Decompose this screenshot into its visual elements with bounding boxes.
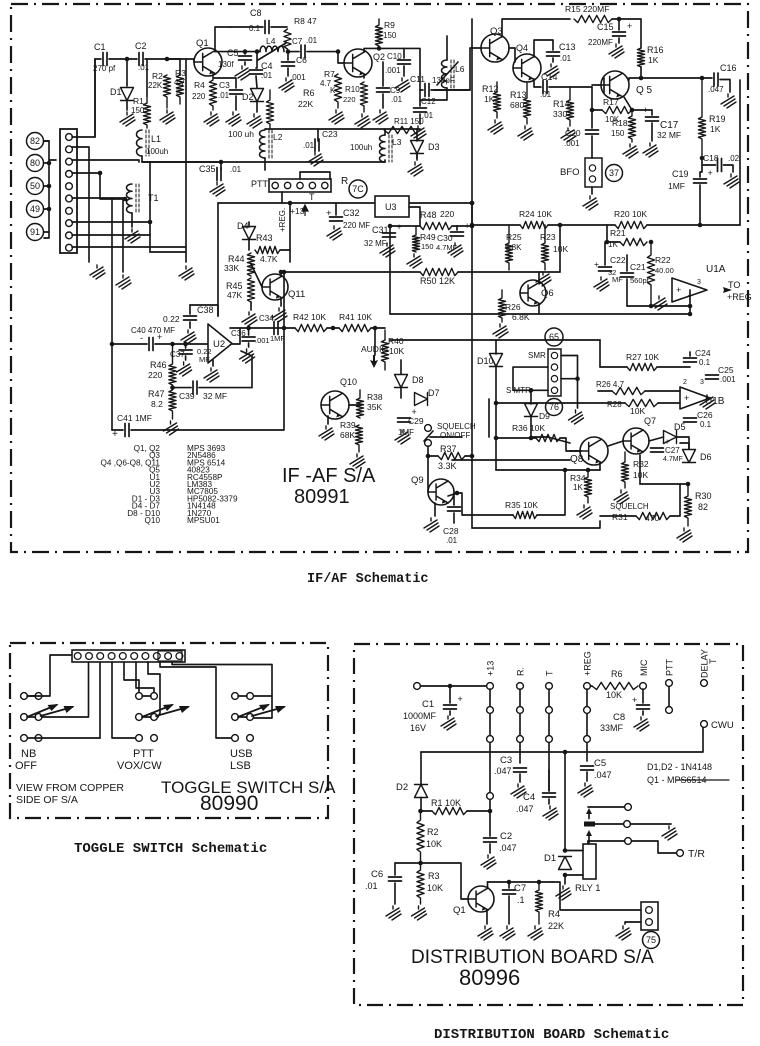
svg-text:.01: .01 — [391, 95, 403, 104]
wire toggle pin1 — [28, 655, 71, 696]
wire R50 right — [458, 271, 560, 273]
label R23 value — [553, 244, 568, 254]
ground R2 — [160, 110, 175, 124]
wire C23 stub — [317, 129, 319, 141]
terminal PTT dist b — [666, 707, 673, 714]
svg-text:C20: C20 — [565, 128, 581, 138]
wire C2 dn — [489, 844, 491, 853]
wire C39 left — [173, 387, 192, 389]
svg-text:.1: .1 — [517, 895, 525, 905]
svg-text:C26: C26 — [697, 410, 713, 420]
label R14 value — [553, 109, 567, 119]
label R36 10K — [512, 423, 545, 433]
ground R39 — [350, 454, 365, 468]
switch contact g2 r1 a — [232, 714, 239, 721]
diode D5 — [664, 431, 677, 444]
label C15 — [597, 22, 614, 32]
wire bottom throw right — [631, 841, 676, 853]
label R46 — [150, 360, 167, 370]
svg-text:R38: R38 — [367, 392, 383, 402]
junction L1 bus — [219, 160, 224, 165]
ground C36 — [240, 349, 255, 363]
svg-text:Q10: Q10 — [145, 516, 161, 525]
label R12 value — [484, 94, 495, 104]
label U1A pin7 — [688, 295, 692, 302]
wire C4 to D2 — [256, 76, 257, 88]
capacitor C3 — [230, 90, 243, 94]
label T/R — [688, 848, 705, 860]
label +REG rot — [278, 208, 287, 232]
label R21 — [610, 228, 626, 238]
wire Q2 collector — [364, 48, 404, 52]
wire +13 low — [489, 799, 491, 811]
svg-text:C12: C12 — [421, 97, 436, 106]
label R25 value — [505, 243, 522, 252]
ground C6 dist — [386, 906, 401, 920]
label R3 value — [427, 883, 443, 893]
junction pin4 — [98, 171, 103, 176]
wire D1 rly bottom — [565, 874, 583, 876]
svg-text:C24: C24 — [695, 348, 711, 358]
note Q1 — [647, 775, 707, 785]
label R44 value — [224, 263, 239, 273]
ground C22 — [594, 277, 609, 291]
label R32 — [633, 459, 649, 469]
svg-text:R8 47: R8 47 — [294, 16, 317, 26]
junction C36 — [246, 326, 251, 331]
svg-text:+REG: +REG — [727, 292, 752, 302]
wire bottom throw bend — [587, 841, 589, 844]
wire y470 bus — [496, 469, 600, 471]
svg-text:R13: R13 — [510, 90, 527, 100]
svg-text:.02: .02 — [728, 154, 740, 163]
label D3 — [428, 142, 440, 152]
svg-text:+: + — [112, 429, 118, 440]
wire R15 right — [612, 19, 641, 48]
ground C38 — [181, 330, 196, 344]
svg-text:TOGGLE SWITCH Schematic: TOGGLE SWITCH Schematic — [74, 841, 267, 857]
wire Q3 top — [502, 19, 570, 37]
wire C15 gnd — [618, 38, 620, 43]
label C22 plus — [594, 259, 599, 269]
label DELAY — [700, 649, 710, 678]
svg-text:L6: L6 — [455, 64, 465, 74]
wire contact link g2 r0 — [238, 695, 247, 697]
wire R24 left — [472, 224, 520, 226]
ground contact common — [662, 826, 677, 840]
parts list value LM383 — [187, 480, 212, 489]
svg-text:R48: R48 — [420, 210, 437, 220]
resistor R10b — [360, 82, 367, 112]
capacitor C8 — [265, 21, 269, 34]
resistor R25 — [505, 225, 512, 270]
capacitor C30 — [451, 221, 470, 236]
label D1 — [110, 87, 122, 97]
label C8 dist — [613, 712, 625, 723]
wire C1 up — [449, 686, 451, 703]
resistor R30 — [684, 484, 691, 526]
svg-text:K: K — [176, 87, 182, 96]
svg-text:.001: .001 — [290, 73, 306, 82]
wire pin1 up — [72, 59, 95, 137]
toggle switch border box — [10, 643, 328, 818]
svg-text:.047: .047 — [594, 770, 612, 780]
caption DISTRIBUTION BOARD Schematic — [434, 1027, 669, 1043]
label SMR — [528, 351, 546, 360]
label C14 value — [540, 90, 552, 99]
wire C17 gnd — [651, 123, 653, 141]
svg-text:C14: C14 — [541, 72, 558, 82]
ground C13 — [544, 64, 559, 78]
ground C3 — [226, 112, 241, 126]
junction D9 bus — [529, 436, 534, 441]
label U3 — [385, 202, 397, 212]
capacitor C20 — [586, 130, 599, 134]
label C32 — [343, 208, 360, 218]
svg-text:+: + — [684, 393, 689, 403]
wire R37 right — [465, 455, 472, 457]
svg-text:.01: .01 — [446, 536, 458, 545]
capacitor C37 — [179, 350, 192, 354]
svg-text:R47: R47 — [148, 389, 165, 399]
label D1 dist — [544, 853, 556, 864]
wire Q1 base wire — [421, 863, 469, 899]
label bus +13 — [486, 661, 496, 676]
label R2 value — [148, 81, 163, 90]
wire C10 gnd — [403, 66, 405, 76]
wire D3 gnd2 — [416, 153, 418, 158]
label R22 value — [655, 266, 674, 275]
svg-text:C19: C19 — [672, 169, 689, 179]
label TO — [728, 280, 740, 290]
svg-text:4.7: 4.7 — [174, 78, 186, 87]
svg-text:D4: D4 — [237, 221, 249, 231]
junction mid bus — [558, 223, 563, 228]
label R1 value — [131, 106, 145, 115]
transformer T1 primary — [127, 184, 140, 213]
op-amp U2 — [208, 324, 232, 363]
wire Q8 base bus — [548, 437, 570, 443]
label C17 — [660, 120, 679, 131]
svg-text:37: 37 — [609, 168, 619, 178]
label R10b value — [343, 95, 356, 104]
label C16 — [720, 63, 737, 73]
label C6 — [296, 55, 307, 65]
wire U3 out — [409, 207, 420, 226]
svg-text:R28: R28 — [607, 400, 622, 409]
label C30 — [437, 233, 453, 243]
label Q1 — [196, 38, 209, 49]
wire C11 left — [404, 48, 423, 90]
label C22 — [610, 255, 626, 265]
wire collector to R35 — [457, 493, 513, 515]
pad R. b — [517, 736, 524, 743]
resistor R39 — [355, 425, 362, 452]
label C29 — [408, 416, 424, 426]
svg-text:0.22: 0.22 — [163, 314, 180, 324]
switch squelch a — [425, 425, 432, 432]
ground C31 — [380, 243, 395, 257]
svg-text:Q3: Q3 — [490, 26, 503, 37]
label 0.22 — [163, 314, 180, 324]
switch arm arrows g0 — [27, 704, 75, 717]
wire input bus — [95, 58, 101, 60]
label R49 value — [421, 242, 434, 251]
wire R24-R20 — [548, 224, 615, 226]
svg-text:+: + — [627, 21, 632, 31]
wire Q6 collector — [538, 272, 540, 282]
svg-text:R9: R9 — [384, 20, 395, 30]
wire T ext — [548, 770, 550, 791]
svg-text:+REG.: +REG. — [278, 208, 287, 232]
label C25 — [718, 365, 734, 375]
label R16 value — [648, 55, 659, 65]
wire Q9 collector — [448, 493, 457, 496]
svg-text:D6: D6 — [700, 452, 712, 462]
junction R2 bot — [418, 861, 423, 866]
label Q8 — [570, 454, 584, 465]
IF/AF schematic border box — [11, 4, 748, 552]
label R40 value — [389, 346, 404, 356]
wire C28 up — [453, 493, 455, 505]
capacitor C4 dist — [543, 793, 556, 797]
ground conn dist — [616, 926, 631, 940]
ground R26 — [493, 324, 508, 338]
svg-text:50: 50 — [30, 181, 40, 191]
label R30 — [695, 491, 712, 501]
resistor R44 — [247, 253, 254, 276]
label R31 value — [645, 513, 659, 523]
capacitor C38 — [184, 316, 197, 320]
svg-text:D9: D9 — [539, 411, 550, 421]
junction C37 node — [183, 342, 188, 347]
wire C17 stub — [632, 110, 652, 115]
ground T1 — [125, 229, 140, 243]
label R18 value — [611, 129, 625, 138]
label C27 — [665, 446, 680, 455]
junction R21 right — [649, 240, 654, 245]
terminal label 82 — [27, 133, 44, 150]
label C1 value b — [410, 723, 426, 733]
label toggle OFF — [15, 760, 37, 772]
wire C30 up — [456, 226, 458, 230]
svg-text:R40: R40 — [388, 336, 404, 346]
svg-text:C7: C7 — [292, 37, 303, 46]
junction R17 right — [630, 108, 635, 113]
svg-text:1K: 1K — [710, 124, 721, 134]
wire C21 down — [626, 279, 628, 306]
junction R35 bus — [563, 468, 568, 473]
wire L3 bottom — [384, 160, 386, 162]
svg-text:L4: L4 — [266, 36, 276, 46]
title 80990 — [200, 792, 258, 815]
label C31 — [372, 225, 389, 235]
junction bracket c — [47, 207, 52, 212]
wire R1 leads — [421, 810, 432, 812]
resistor R41 — [339, 324, 371, 331]
title IF-AF S/A — [282, 465, 376, 487]
label C5 value — [594, 770, 612, 780]
wire D10 down — [495, 366, 497, 403]
wire C4 stub — [256, 52, 257, 68]
label SQUELCH2 — [610, 502, 649, 511]
label Q6 — [541, 288, 554, 299]
wire C1-C2 — [109, 58, 137, 60]
terminal T/R — [677, 850, 684, 857]
svg-text:.001: .001 — [385, 66, 401, 75]
inductor L4 — [260, 46, 284, 52]
svg-text:NB: NB — [21, 748, 36, 760]
svg-text:C3: C3 — [219, 80, 230, 90]
wire Q4 collector — [534, 40, 553, 57]
switch arm arrows g2 — [238, 704, 286, 717]
capacitor C41 — [125, 424, 129, 437]
label R32 value — [633, 470, 648, 480]
label D8 — [412, 375, 424, 385]
junction y314 — [688, 312, 693, 317]
label C26 — [697, 410, 713, 420]
junction C19 bus — [698, 223, 703, 228]
svg-text:R10: R10 — [345, 85, 360, 94]
ground D2 — [247, 114, 262, 128]
contact common — [624, 821, 631, 828]
label C3 value — [494, 766, 512, 776]
wire D2 down — [420, 798, 422, 812]
label toggle PTT — [133, 748, 154, 760]
label C12 — [421, 97, 436, 106]
svg-text:C21: C21 — [630, 262, 646, 272]
wire R3 top — [167, 59, 180, 75]
label C24 value — [699, 358, 711, 367]
resistor R2 — [163, 75, 170, 108]
parts list row Q5 — [149, 466, 160, 475]
capacitor C17 — [646, 117, 659, 121]
svg-text:150: 150 — [421, 242, 434, 251]
wire mid drop x496 — [495, 403, 497, 470]
svg-text:+: + — [643, 105, 648, 115]
wire toggle pin6 — [136, 662, 154, 692]
switch arm arrows g1 — [142, 704, 190, 717]
svg-text:6.8K: 6.8K — [512, 312, 530, 322]
ground C3 dist — [511, 784, 526, 798]
pad T a — [546, 707, 553, 714]
svg-text:80990: 80990 — [200, 792, 258, 815]
label C6 dist — [371, 869, 383, 880]
transistor Q6 — [520, 280, 546, 306]
junction R16 bus — [639, 76, 644, 81]
svg-text:C2: C2 — [135, 41, 147, 51]
label R40 — [388, 336, 404, 346]
label C40 — [131, 326, 175, 335]
junction R17 left — [590, 108, 595, 113]
svg-text:7C: 7C — [352, 184, 364, 194]
label C28 — [443, 526, 459, 536]
svg-text:4.7MF: 4.7MF — [663, 456, 683, 463]
resistor R46 — [169, 344, 176, 385]
svg-text:470: 470 — [645, 513, 659, 523]
wire C36 up — [248, 328, 250, 335]
wire C38 up — [189, 305, 191, 314]
capacitor C40 — [149, 338, 153, 351]
svg-text:91: 91 — [30, 227, 40, 237]
label C11 value — [432, 76, 455, 85]
label R9 — [384, 20, 395, 30]
label R25 — [506, 232, 522, 242]
wire C38 top loop — [190, 305, 218, 316]
connector PTT strip — [269, 179, 331, 192]
wire C21 box — [626, 255, 628, 271]
label R49 — [420, 232, 436, 242]
ground relay — [556, 886, 571, 900]
junction R41 L — [331, 326, 336, 331]
label R44 — [228, 254, 245, 264]
label C17 value — [657, 130, 681, 140]
wire R1 top — [146, 59, 148, 96]
svg-text:47K: 47K — [227, 290, 242, 300]
label T delay — [708, 658, 718, 664]
svg-text:R16: R16 — [647, 45, 664, 55]
label +13 center — [290, 206, 305, 216]
parts list value MC7805 — [187, 487, 218, 496]
label R31 — [612, 512, 628, 522]
ground R4 — [204, 112, 219, 126]
svg-text:+: + — [708, 168, 713, 178]
label C4 value — [261, 71, 273, 80]
wire pin8 right — [72, 221, 150, 223]
wire C4 dn — [548, 799, 550, 804]
label Q1 dist — [453, 905, 466, 916]
parts list row U3 — [150, 487, 161, 496]
label R6 value — [606, 690, 622, 700]
wire R30 bus — [640, 483, 688, 485]
label U1B — [705, 396, 725, 407]
svg-text:.01: .01 — [365, 881, 378, 891]
label L2 — [273, 132, 283, 142]
svg-text:IF -AF S/A: IF -AF S/A — [282, 465, 376, 487]
label L4 — [266, 36, 276, 46]
svg-text:2: 2 — [683, 379, 687, 386]
wire R48 bus left — [390, 225, 420, 227]
svg-text:Q1: Q1 — [453, 905, 466, 916]
svg-text:.01: .01 — [540, 90, 552, 99]
arrow +13 — [302, 205, 308, 216]
label R10b — [345, 85, 360, 94]
wire L4 arrow — [258, 43, 286, 60]
svg-text:.01: .01 — [560, 54, 572, 63]
wire C6 up — [394, 863, 396, 875]
svg-text:10K: 10K — [427, 883, 443, 893]
label D10 — [477, 356, 494, 366]
ground R14 — [561, 128, 576, 142]
label C16 value — [708, 85, 724, 94]
wire toggle pin5 — [124, 662, 139, 692]
terminal label 50 — [27, 178, 44, 195]
svg-text:ON/OFF: ON/OFF — [440, 431, 470, 440]
resistor R1 — [143, 96, 150, 128]
junction U1A out — [688, 304, 693, 309]
resistor R4 dist — [535, 882, 542, 924]
wire Q9 emitter — [434, 503, 436, 516]
capacitor C26 — [684, 418, 697, 422]
label T center — [309, 192, 315, 202]
svg-text:R32: R32 — [633, 459, 649, 469]
svg-text:130f: 130f — [218, 60, 234, 69]
label bus +REG — [583, 651, 593, 676]
svg-text:SIDE OF S/A: SIDE OF S/A — [16, 794, 78, 806]
label C37 val a — [197, 347, 212, 356]
svg-text:.01: .01 — [218, 91, 230, 100]
wire 82 to pin — [44, 140, 49, 142]
